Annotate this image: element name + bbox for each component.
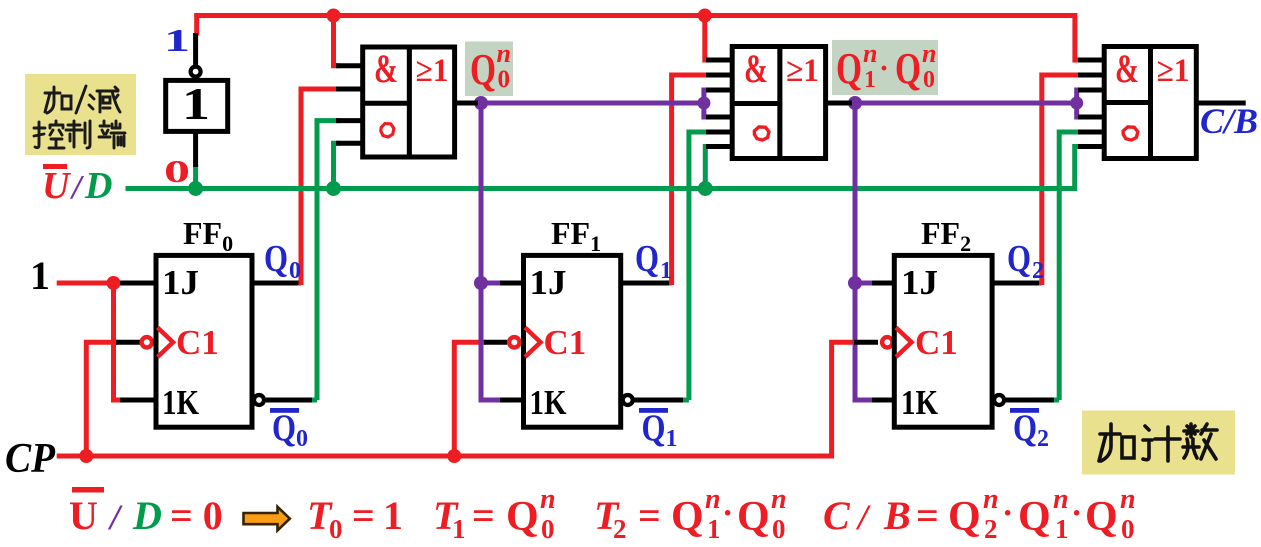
flip-flop FF0 box bbox=[156, 255, 252, 427]
svg-text:n: n bbox=[983, 484, 999, 515]
flip-flop FF0 clock bubble bbox=[142, 337, 152, 347]
label text 控制端 (hand-drawn strokes, line 2 of yellow box) bbox=[34, 121, 125, 148]
wire: Q2bar to gate U3 input 5 bbox=[1053, 132, 1081, 400]
flip-flop FF2 Qbar bubble bbox=[994, 395, 1004, 405]
node label Ubar/D bbox=[42, 164, 112, 207]
node label Q1bar (blue) bbox=[639, 408, 678, 453]
gate U3 OR box bbox=[1151, 47, 1197, 159]
svg-text:2: 2 bbox=[1032, 258, 1044, 284]
wire: Q1 to gate U2 input 2 bbox=[669, 75, 712, 285]
gate U2 AND box bbox=[732, 47, 780, 159]
node: rail junction to gate U2 bbox=[698, 9, 712, 23]
svg-text:n: n bbox=[1053, 484, 1069, 515]
svg-text:Q: Q bbox=[1013, 408, 1037, 450]
svg-text:Q: Q bbox=[671, 494, 704, 540]
svg-text:C/B: C/B bbox=[1200, 101, 1258, 141]
svg-text:D: D bbox=[84, 165, 112, 207]
svg-text:1J: 1J bbox=[530, 263, 567, 302]
svg-text:C: C bbox=[823, 493, 851, 538]
node: purple dot at FF1 1J bbox=[474, 276, 488, 290]
svg-text:Q: Q bbox=[264, 238, 288, 280]
flip-flop FF2 clock edge chevron bbox=[896, 328, 912, 358]
svg-text:Q: Q bbox=[272, 408, 296, 450]
svg-text:n: n bbox=[771, 484, 787, 515]
svg-text:Q: Q bbox=[1018, 494, 1051, 540]
wire: red drop to gate U2 input 1 bbox=[705, 13, 710, 60]
gate U1 handwritten o annotation bbox=[381, 124, 394, 137]
gate U1 AND box bbox=[363, 47, 410, 157]
svg-text:1: 1 bbox=[707, 514, 721, 544]
svg-text:1K: 1K bbox=[162, 383, 199, 422]
flip-flop FF0 input stubs bbox=[116, 283, 158, 400]
gate U2 handwritten o annotation bbox=[754, 127, 769, 140]
svg-text:2: 2 bbox=[1037, 426, 1049, 452]
gate U3 handwritten o annotation bbox=[1123, 127, 1138, 140]
svg-text:n: n bbox=[497, 39, 511, 68]
svg-text:Q: Q bbox=[895, 44, 921, 93]
svg-text:1J: 1J bbox=[901, 263, 938, 302]
wire: purple net gate U1 output to gate U2 and FF1 bbox=[477, 90, 710, 400]
inverter U0 output black segment bbox=[193, 131, 198, 167]
node: rail junction to gate U1 bbox=[327, 9, 341, 23]
svg-text:0: 0 bbox=[296, 426, 308, 452]
node: purple dot at gate U2 input bbox=[697, 97, 710, 110]
svg-text:&: & bbox=[1115, 46, 1139, 91]
svg-text:=: = bbox=[472, 493, 495, 538]
node label Q2bar (blue) bbox=[1010, 408, 1049, 453]
wire: Q2 to gate U3 input 2 bbox=[1039, 75, 1081, 285]
wire: rail to gate U2 input 6 bbox=[705, 147, 710, 191]
node label Q0bar (blue) bbox=[270, 408, 308, 453]
gate U3 input stubs bbox=[1078, 60, 1106, 147]
flip-flop FF2 output stubs bbox=[990, 283, 1054, 400]
inverter U0 input black segment bbox=[193, 33, 198, 66]
inverter U0 input bubble bbox=[191, 67, 201, 77]
svg-text:Q: Q bbox=[470, 45, 496, 94]
svg-text:Q: Q bbox=[948, 494, 981, 540]
svg-text:1: 1 bbox=[1055, 514, 1069, 544]
flip-flop FF1 clock edge chevron bbox=[525, 328, 541, 358]
node: purple dot at FF2 1J bbox=[848, 276, 862, 290]
svg-text:U: U bbox=[42, 165, 72, 207]
wire: purple net gate U2 output to gate U3 and FF2 bbox=[851, 90, 1081, 400]
svg-text:0: 0 bbox=[1121, 514, 1135, 544]
svg-text:1: 1 bbox=[666, 426, 678, 452]
flip-flop FF1 clock bubble bbox=[509, 337, 519, 347]
svg-text:·: · bbox=[879, 52, 889, 85]
node: FF0 J-K junction bbox=[107, 276, 121, 290]
svg-text:1: 1 bbox=[660, 258, 672, 284]
wire: inverter output green segment bbox=[193, 165, 198, 190]
node: CP junction FF0 bbox=[79, 449, 93, 463]
flip-flop FF2 clock bubble bbox=[882, 337, 892, 347]
flip-flop FF1 output stubs bbox=[618, 283, 683, 400]
node: purple dot at gate U2 output bbox=[848, 96, 862, 110]
svg-text:=: = bbox=[352, 493, 375, 538]
wire: FF0 J to K vertical bbox=[114, 283, 123, 400]
gate U3 AND box bbox=[1104, 47, 1150, 159]
svg-text:0: 0 bbox=[289, 258, 301, 284]
svg-text:1: 1 bbox=[452, 514, 466, 544]
node: green junction at inverter bbox=[188, 181, 203, 196]
svg-text:n: n bbox=[540, 484, 556, 515]
gate U3 compartment divider bbox=[1104, 100, 1150, 105]
svg-text:2: 2 bbox=[613, 514, 627, 544]
flip-flop FF2 input stubs bbox=[854, 283, 896, 400]
wire: FF0 input 1 feed bbox=[57, 281, 122, 286]
svg-text:1: 1 bbox=[164, 22, 190, 58]
svg-text:1J: 1J bbox=[162, 263, 199, 302]
svg-text:CP: CP bbox=[5, 436, 55, 482]
wire: green U/D rail bbox=[126, 147, 1082, 189]
svg-text:D: D bbox=[132, 493, 162, 538]
svg-text:Q: Q bbox=[1007, 238, 1031, 280]
formula: Ubar / D = 0 bbox=[69, 487, 223, 538]
node: purple dot at gate U1 output bbox=[474, 96, 488, 110]
svg-text:= 0: = 0 bbox=[170, 493, 223, 538]
svg-text:n: n bbox=[1120, 484, 1136, 515]
svg-text:Q: Q bbox=[737, 494, 770, 540]
svg-text:B: B bbox=[883, 493, 911, 538]
gate U2 OR box bbox=[780, 47, 826, 159]
svg-text:·: · bbox=[722, 495, 733, 532]
svg-text:C1: C1 bbox=[915, 323, 958, 362]
node: purple dot at gate U3 input bbox=[1070, 97, 1083, 110]
svg-text:Q: Q bbox=[1085, 494, 1118, 540]
gate U2 input stubs bbox=[706, 60, 734, 147]
formula: T0 = 1 bbox=[307, 493, 403, 544]
flip-flop FF1 Qbar bubble bbox=[623, 395, 633, 405]
flip-flop FF2 box bbox=[894, 255, 992, 427]
svg-text:≥1: ≥1 bbox=[1157, 53, 1190, 89]
gate U1 output stub bbox=[453, 101, 478, 106]
gate U1 OR box bbox=[409, 47, 454, 157]
label background 加/减控制端 bbox=[25, 74, 136, 155]
svg-text:0: 0 bbox=[498, 66, 511, 93]
svg-text:=: = bbox=[916, 493, 939, 538]
svg-text:·: · bbox=[1071, 495, 1082, 532]
svg-text:C1: C1 bbox=[176, 323, 219, 362]
svg-text:0: 0 bbox=[329, 514, 343, 544]
svg-text:U: U bbox=[69, 493, 98, 538]
label background 加计数 bbox=[1082, 411, 1235, 475]
svg-text:n: n bbox=[705, 484, 721, 515]
wire: CP rise to FF1 C1 bbox=[454, 342, 486, 458]
flip-flop FF0 Qbar bubble bbox=[254, 395, 264, 405]
svg-text:·: · bbox=[1002, 495, 1013, 532]
wire: Q0bar to gate U1 input 3 bbox=[311, 121, 340, 400]
gate U2 compartment divider bbox=[732, 101, 780, 106]
svg-text:1: 1 bbox=[30, 253, 50, 298]
wire: red drop to gate U1 input 1 bbox=[334, 13, 341, 66]
svg-text:1K: 1K bbox=[530, 383, 567, 422]
svg-text:&: & bbox=[374, 46, 398, 91]
wire: top red rail from inverter output to gate U3 input bbox=[197, 16, 1081, 61]
node: CP junction FF1 bbox=[447, 449, 461, 463]
flip-flop FF0 clock edge chevron bbox=[158, 328, 174, 358]
svg-text:0: 0 bbox=[164, 153, 190, 189]
label text 加计数 (hand-drawn strokes in yellow box) bbox=[1099, 424, 1217, 461]
formula: T2 = Q1n . Q0n bbox=[594, 484, 787, 544]
svg-text:≥1: ≥1 bbox=[416, 53, 449, 89]
flip-flop FF0 output stubs bbox=[250, 283, 312, 400]
flip-flop FF1 input stubs bbox=[484, 283, 525, 400]
gate U3 output stub to C/B bbox=[1194, 101, 1246, 106]
wire: Q0 to gate U1 input 2 bbox=[299, 89, 340, 285]
arrow implies (orange block arrow) bbox=[244, 507, 290, 531]
svg-text:0: 0 bbox=[772, 514, 786, 544]
node: green rail junction gate U1 bbox=[326, 181, 341, 196]
svg-text:1K: 1K bbox=[901, 383, 938, 422]
wire: CP line with rise to FF2 C1 bbox=[57, 342, 856, 456]
svg-text:1: 1 bbox=[864, 67, 876, 93]
wire: CP rise to FF0 C1 bbox=[86, 342, 118, 458]
node: green rail junction gate U2 bbox=[698, 181, 713, 196]
svg-text:≥1: ≥1 bbox=[786, 53, 819, 89]
gate U2 output stub bbox=[824, 101, 852, 106]
formula: T1 = Q0n bbox=[433, 484, 556, 544]
label background Q1n.Q0n bbox=[832, 40, 938, 95]
svg-text:n: n bbox=[863, 39, 877, 68]
label text 加/减 (hand-drawn strokes, line 1 of yellow box) bbox=[45, 86, 120, 113]
gate U1 compartment divider bbox=[363, 101, 410, 106]
svg-text:=: = bbox=[638, 493, 661, 538]
label background Q0n bbox=[465, 42, 513, 97]
svg-text:Q: Q bbox=[642, 408, 666, 450]
inverter U0 box bbox=[166, 80, 228, 131]
svg-text:Q: Q bbox=[635, 238, 659, 280]
wire: Q1bar to gate U2 input 5 bbox=[682, 132, 710, 400]
svg-text:C1: C1 bbox=[544, 323, 587, 362]
svg-text:0: 0 bbox=[923, 67, 935, 93]
svg-text:1: 1 bbox=[383, 493, 403, 538]
svg-text:2: 2 bbox=[984, 514, 998, 544]
gate U1 input stubs bbox=[336, 66, 364, 144]
svg-text:n: n bbox=[922, 39, 936, 68]
svg-text:&: & bbox=[744, 46, 768, 91]
wire: rail to gate U1 input 4 bbox=[334, 143, 341, 190]
svg-text:Q: Q bbox=[506, 494, 539, 540]
formula: C / B = Q2n . Q1n . Q0n bbox=[823, 484, 1136, 544]
svg-text:0: 0 bbox=[541, 514, 555, 544]
flip-flop FF1 box bbox=[524, 255, 621, 427]
svg-text:1: 1 bbox=[182, 78, 210, 129]
svg-text:Q: Q bbox=[836, 44, 862, 93]
